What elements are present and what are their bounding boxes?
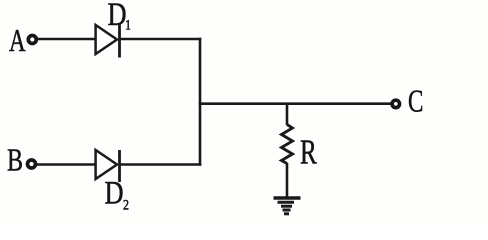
svg-text:B: B — [7, 143, 23, 178]
svg-text:R: R — [300, 132, 317, 171]
svg-text:D: D — [105, 175, 124, 211]
svg-text:A: A — [9, 23, 26, 59]
svg-text:2: 2 — [123, 196, 129, 213]
svg-text:1: 1 — [125, 16, 131, 33]
svg-text:C: C — [408, 84, 423, 120]
svg-text:D: D — [108, 0, 127, 33]
